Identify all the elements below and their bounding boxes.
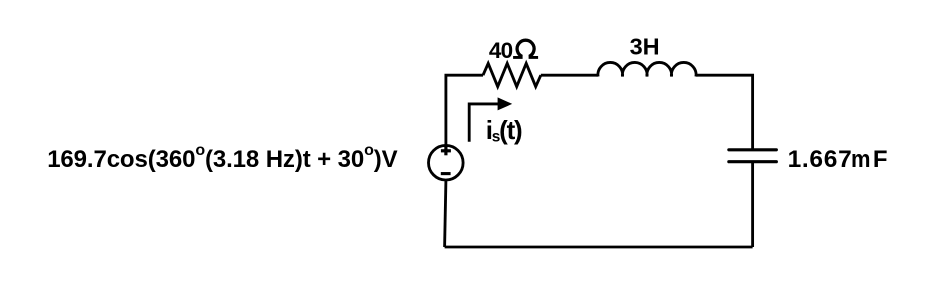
svg-text:169.7cos(360o(3.18 Hz)t + 30o): 169.7cos(360o(3.18 Hz)t + 30o)V bbox=[47, 142, 397, 173]
voltage source V1 circle bbox=[429, 145, 464, 180]
svg-text:is(t): is(t) bbox=[486, 115, 522, 145]
svg-text:40: 40 bbox=[489, 38, 513, 63]
capacitor C1 1.667mF plates bbox=[729, 150, 777, 162]
wire bottom bbox=[445, 246, 753, 249]
wire bottom-left vertical to source bbox=[445, 181, 446, 247]
svg-text:3H: 3H bbox=[630, 34, 660, 60]
svg-text:1.667: 1.667 bbox=[788, 146, 853, 173]
inductor L1 3H bbox=[598, 62, 696, 76]
wire inductor to top-right corner and down to capacitor bbox=[696, 75, 753, 150]
source minus sign bbox=[441, 172, 451, 175]
wire capacitor to bottom-right corner bbox=[751, 162, 754, 247]
resistor R1 40ohm zigzag bbox=[483, 63, 541, 86]
svg-text:m: m bbox=[851, 146, 871, 173]
source plus sign bbox=[441, 146, 451, 155]
current arrow is(t) arrowhead bbox=[498, 97, 513, 110]
svg-text:F: F bbox=[873, 146, 888, 173]
current arrow is(t) L-shaped line bbox=[469, 104, 499, 142]
wire left vertical and top-left segment bbox=[446, 75, 483, 144]
value label omega symbol for resistor R1 bbox=[513, 40, 538, 57]
wire resistor to inductor bbox=[541, 74, 598, 77]
